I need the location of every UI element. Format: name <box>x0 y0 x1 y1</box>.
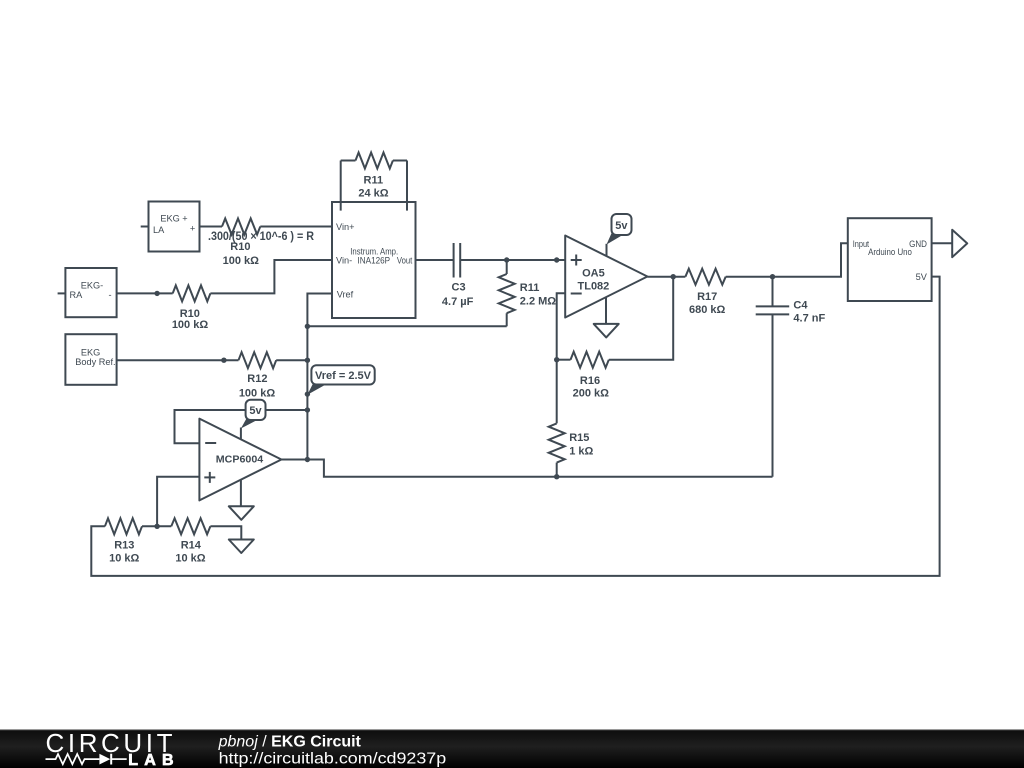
node junction <box>154 291 159 296</box>
svg-text:EKG: EKG <box>81 348 100 358</box>
svg-text:TL082: TL082 <box>578 280 610 292</box>
svg-text:C4: C4 <box>793 300 808 312</box>
wire Vout <box>416 259 454 261</box>
svg-text:Body Ref.: Body Ref. <box>75 357 115 367</box>
svg-text:R15: R15 <box>569 432 589 444</box>
node junction divider <box>154 524 159 529</box>
svg-text:100 kΩ: 100 kΩ <box>239 387 276 399</box>
svg-text:MCP6004: MCP6004 <box>216 454 264 466</box>
wire <box>557 359 571 361</box>
svg-text:R13: R13 <box>114 539 134 551</box>
IC Arduino Uno box <box>848 218 932 301</box>
svg-text:Input: Input <box>853 239 870 249</box>
svg-text:Vref = 2.5V: Vref = 2.5V <box>315 370 372 382</box>
svg-text:.300/(50 × 10^-6 ) = R: .300/(50 × 10^-6 ) = R <box>208 231 315 243</box>
svg-text:EKG-: EKG- <box>81 281 103 291</box>
svg-text:680 kΩ: 680 kΩ <box>689 304 726 316</box>
output flag terminal <box>952 230 967 257</box>
op-amp OA? MCP6004 <box>199 419 281 501</box>
svg-text:OA5: OA5 <box>582 268 605 280</box>
svg-text:R10: R10 <box>230 241 250 253</box>
capacitor C4 <box>772 277 774 307</box>
wire <box>117 359 239 361</box>
op-amp OA5 TL082 <box>565 236 647 318</box>
annotation Vref = 2.5V <box>307 384 326 395</box>
wire <box>117 292 173 294</box>
svg-text:5v: 5v <box>249 405 262 417</box>
resistor R11 24k gain loop <box>340 161 342 211</box>
svg-text:-: - <box>108 290 111 300</box>
svg-text:200 kΩ: 200 kΩ <box>573 387 610 399</box>
wire Vref pin <box>307 294 332 460</box>
logo squiggle resistor-diode <box>46 754 100 764</box>
svg-text:R11: R11 <box>520 282 540 294</box>
resistor R11 2.2M <box>506 260 508 274</box>
node junction opamp+ <box>554 257 559 262</box>
ground below R14 <box>229 540 254 554</box>
node junction <box>305 358 310 363</box>
node junction C4 <box>770 274 775 279</box>
svg-text:R14: R14 <box>181 539 202 551</box>
svg-text:GND: GND <box>909 239 927 249</box>
wire to arduino <box>726 243 848 277</box>
wire + input <box>157 477 199 527</box>
wire <box>260 226 332 228</box>
svg-text:24 kΩ: 24 kΩ <box>358 188 388 200</box>
power flag 5v OA5 <box>607 231 624 245</box>
svg-text:R12: R12 <box>247 373 267 385</box>
svg-text:R16: R16 <box>580 375 600 387</box>
voltage source V2 (EKG- RA) <box>58 292 66 294</box>
wire output <box>647 276 685 278</box>
svg-text:+: + <box>190 223 195 233</box>
svg-text:Vin-: Vin- <box>336 256 352 266</box>
svg-text:INA126P: INA126P <box>358 256 391 266</box>
svg-text:http://circuitlab.com/cd9237p: http://circuitlab.com/cd9237p <box>219 751 447 768</box>
svg-text:4.7 nF: 4.7 nF <box>793 313 825 325</box>
ground below OA5 <box>605 297 607 324</box>
node junction C3 out <box>504 257 509 262</box>
voltage source V3 (EKG Body Ref.) <box>65 334 116 385</box>
svg-text:2.2 MΩ: 2.2 MΩ <box>520 295 557 307</box>
node junction <box>221 358 226 363</box>
resistor R10 (top) <box>222 219 260 235</box>
resistor R12 <box>239 352 277 368</box>
resistor R15 <box>549 423 565 462</box>
node junction feedback <box>305 407 310 412</box>
wire output buffer <box>281 460 772 477</box>
svg-text:pbnoj / EKG Circuit: pbnoj / EKG Circuit <box>218 733 362 750</box>
wire <box>142 525 171 527</box>
resistor R17 <box>685 269 725 285</box>
svg-text:Vin+: Vin+ <box>336 222 354 232</box>
wire Vref rail <box>307 325 506 327</box>
node output junction <box>671 274 676 279</box>
power stub OA5 <box>606 244 608 257</box>
svg-text:5v: 5v <box>615 220 628 232</box>
wire <box>460 259 565 261</box>
wire minus feedback <box>175 410 308 443</box>
capacitor C3 <box>453 243 455 278</box>
wire 5V rail <box>91 277 939 576</box>
resistor R16 <box>571 352 609 368</box>
wire feedback <box>609 277 673 360</box>
svg-text:100 kΩ: 100 kΩ <box>223 255 260 267</box>
svg-text:EKG +: EKG + <box>160 213 187 223</box>
svg-text:100 kΩ: 100 kΩ <box>172 319 209 331</box>
svg-text:4.7 µF: 4.7 µF <box>442 296 474 308</box>
wire <box>276 359 307 361</box>
resistor R10 (RA) <box>173 285 211 301</box>
wire GND pin <box>932 242 953 244</box>
resistor R14 <box>171 518 210 534</box>
resistor R13 <box>105 518 142 534</box>
svg-text:RA: RA <box>70 290 84 300</box>
svg-text:LA: LA <box>153 225 165 235</box>
node junction R15 bottom <box>554 474 559 479</box>
svg-text:Vref: Vref <box>337 289 354 299</box>
svg-text:Arduino Uno: Arduino Uno <box>868 247 912 257</box>
node junction buffer out <box>305 457 310 462</box>
svg-text:5V: 5V <box>916 272 928 282</box>
svg-text:10 kΩ: 10 kΩ <box>175 553 205 565</box>
node junction Vref tail <box>305 391 310 396</box>
svg-text:LAB: LAB <box>128 752 173 768</box>
power flag 5v MCP6004 <box>241 418 258 429</box>
svg-text:R17: R17 <box>697 291 717 303</box>
svg-text:R11: R11 <box>364 175 384 187</box>
wire to ground <box>210 526 241 539</box>
voltage source V1 (EKG + LA) <box>141 226 149 228</box>
wire <box>210 260 332 293</box>
svg-text:Vout: Vout <box>397 256 413 266</box>
ground below MCP6004 <box>240 480 242 507</box>
svg-text:1 kΩ: 1 kΩ <box>569 445 593 457</box>
op-amp U1 INA126P box <box>332 202 416 318</box>
wire minus input <box>557 293 566 423</box>
node Vref rail junction <box>305 324 310 329</box>
svg-text:C3: C3 <box>452 282 466 294</box>
node junction R16 <box>554 357 559 362</box>
svg-text:10 kΩ: 10 kΩ <box>109 553 139 565</box>
wire <box>200 226 223 228</box>
